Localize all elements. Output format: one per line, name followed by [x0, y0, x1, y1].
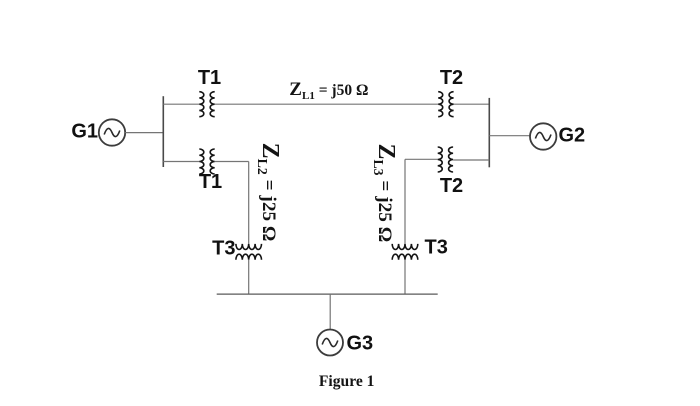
svg-text:T3: T3: [212, 238, 235, 260]
svg-text:Figure 1: Figure 1: [319, 373, 375, 390]
svg-text:G2: G2: [559, 125, 586, 147]
generator G1: [99, 119, 125, 145]
svg-text:ZL2 = j25 Ω: ZL2 = j25 Ω: [255, 143, 283, 242]
svg-text:G3: G3: [347, 333, 374, 355]
wire ZL2 vertical (line 2): [248, 162, 250, 244]
bus 1: [162, 96, 164, 167]
svg-text:T3: T3: [425, 237, 448, 259]
transmission line ZL1 wire: [215, 103, 439, 105]
svg-text:T1: T1: [198, 67, 221, 89]
bus 2: [488, 98, 490, 167]
transformer T1 (top): [199, 92, 214, 117]
wire T3 right to bus 3: [404, 260, 406, 294]
svg-text:T1: T1: [199, 171, 222, 193]
wire T2 bottom to bus 2: [453, 159, 489, 161]
generator G2: [530, 123, 556, 149]
wire bus 2 to G2: [489, 135, 530, 137]
transformer T2 (top): [438, 92, 453, 117]
generator G3: [317, 330, 343, 356]
wire bus 1 to T1 bottom: [163, 161, 199, 163]
transformer T2 (bottom): [438, 147, 453, 172]
svg-text:ZL3 = j25 Ω: ZL3 = j25 Ω: [371, 144, 399, 243]
wire G1 to bus 1: [125, 132, 163, 134]
bus 3: [217, 293, 438, 295]
wire bus 3 to G3: [329, 294, 331, 329]
svg-text:ZL1 = j50 Ω: ZL1 = j50 Ω: [289, 79, 368, 102]
svg-text:G1: G1: [71, 121, 98, 143]
wire T2 top to bus 2: [454, 103, 490, 105]
wire T1 bottom to ZL2 corner: [215, 161, 249, 163]
wire bus 1 to T1 top: [163, 103, 199, 105]
transformer T1 (bottom): [199, 149, 214, 174]
transformer T3 (left): [236, 244, 262, 260]
transformer T3 (right): [392, 244, 418, 260]
svg-text:T2: T2: [440, 175, 463, 197]
wire ZL3 vertical (line 3): [404, 159, 406, 244]
svg-text:T2: T2: [440, 67, 463, 89]
wire ZL3 corner to T2 bottom: [405, 158, 438, 160]
wire T3 left to bus 3: [248, 260, 250, 294]
